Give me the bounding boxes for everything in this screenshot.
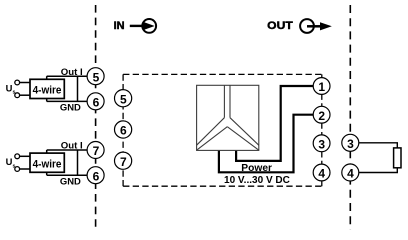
terminal 1 device [313, 78, 330, 95]
svg-text:GND: GND [60, 103, 81, 114]
load resistor R1 [394, 148, 401, 168]
svg-text:Out I: Out I [61, 67, 83, 78]
svg-text:Power: Power [241, 163, 272, 174]
svg-text:3: 3 [347, 137, 354, 151]
svg-text:4-wire: 4-wire [33, 85, 62, 97]
svg-text:6: 6 [120, 124, 127, 138]
wire terminal 3 to load top [359, 143, 398, 148]
svg-text:4: 4 [347, 167, 354, 181]
svg-text:IN: IN [114, 20, 125, 32]
svg-text:4: 4 [318, 167, 325, 181]
terminal 7 outer [87, 142, 104, 159]
svg-text:Out I: Out I [61, 141, 83, 152]
terminal 4 device [313, 164, 330, 181]
transducer B1 back frame left side [46, 76, 48, 101]
transducer B2 wire Out I to terminal 7 [47, 149, 88, 151]
transducer B2 supply wire - [20, 168, 32, 170]
svg-text:4-wire: 4-wire [33, 158, 62, 170]
terminal 3 device [313, 135, 330, 152]
wire terminal 4 to load bottom [359, 168, 398, 173]
transducer B1 wire Out I to terminal 5 [47, 75, 88, 77]
terminal 2 device [313, 106, 330, 123]
transducer B2 supply pin circle + [15, 154, 20, 159]
svg-text:7: 7 [93, 144, 100, 158]
transducer B1 back frame right side [77, 76, 79, 101]
wire terminal 1 to splitter output a [236, 86, 313, 161]
transducer B2 back frame left side [46, 150, 48, 175]
transducer B2 wire GND to terminal 6 [47, 174, 88, 176]
svg-text:s: s [13, 164, 16, 170]
terminal 5 device [115, 90, 132, 107]
svg-text:5: 5 [93, 70, 100, 84]
device outline dashed box [123, 74, 322, 186]
transducer B2 body [30, 153, 64, 172]
IN input symbol [130, 19, 156, 33]
terminal 5 outer [87, 68, 104, 85]
terminal 6b outer [87, 167, 104, 184]
svg-text:6: 6 [93, 95, 100, 109]
svg-text:3: 3 [318, 138, 325, 152]
output field boundary dashed line [349, 5, 351, 230]
svg-text:10 V...30 V DC: 10 V...30 V DC [224, 174, 290, 186]
terminal 4 outer [342, 164, 359, 181]
terminal 6 outer [87, 93, 104, 110]
transducer B1 supply wire + [20, 82, 32, 84]
transducer B1 supply pin circle - [15, 93, 20, 98]
transducer B1 wire GND to terminal 6 [47, 100, 88, 102]
transducer B1 supply wire - [20, 94, 32, 96]
transducer B1 supply pin circle + [15, 80, 20, 85]
terminal 3 outer [342, 134, 359, 151]
input field boundary dashed line [95, 5, 97, 227]
svg-text:OUT: OUT [267, 20, 293, 32]
terminal 6 device [115, 121, 132, 138]
terminal 7 device [115, 152, 132, 169]
svg-text:GND: GND [60, 176, 81, 187]
transducer B2 back frame right side [77, 150, 79, 175]
svg-text:s: s [13, 90, 16, 96]
svg-text:6: 6 [93, 169, 100, 183]
transducer B2 supply pin circle - [15, 167, 20, 172]
svg-text:7: 7 [120, 155, 127, 169]
svg-text:5: 5 [120, 92, 127, 106]
splitter symbol box U1 [197, 85, 259, 150]
svg-text:1: 1 [318, 80, 325, 94]
OUT output symbol [300, 19, 332, 33]
svg-text:2: 2 [318, 109, 325, 123]
transducer B1 body [30, 79, 64, 98]
wire terminal 2 to splitter output b [219, 115, 314, 173]
transducer B2 supply wire + [20, 155, 32, 157]
